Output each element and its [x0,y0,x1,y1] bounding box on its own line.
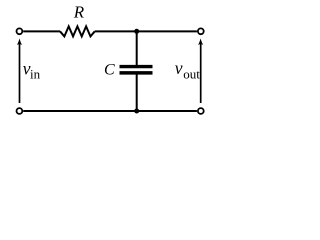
svg-text:out: out [183,67,200,82]
wire capacitor bottom lead [136,75,138,112]
wire resistor to terminal top-right [95,30,197,32]
terminal bottom-right [198,108,204,114]
node junction dot top [134,29,139,34]
wire top-left to resistor [23,30,60,32]
svg-text:in: in [30,67,41,82]
svg-text:v: v [175,58,183,78]
terminal top-right [198,28,204,34]
v_out arrowhead [198,38,203,45]
wire bottom [23,110,197,112]
v_out arrow shaft [200,44,202,103]
v_in arrow shaft [19,44,21,103]
wire capacitor top lead [136,31,138,65]
v_in arrowhead [17,38,22,45]
svg-text:R: R [73,3,85,22]
svg-text:C: C [104,62,115,79]
terminal bottom-left [17,108,23,114]
terminal top-left [17,28,23,34]
node junction dot bottom [134,109,139,114]
resistor R [60,26,95,36]
capacitor C plates [120,65,153,68]
